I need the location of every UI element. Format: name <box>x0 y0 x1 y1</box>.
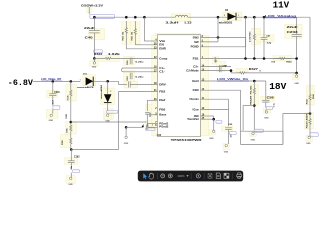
svg-text:-6.8V: -6.8V <box>8 78 34 88</box>
svg-text:R311 10k: R311 10k <box>122 31 124 40</box>
net connector pill 3.3V <box>90 15 115 19</box>
node bus-R321 <box>134 16 137 19</box>
node r328 <box>253 104 256 107</box>
node comp <box>93 57 96 60</box>
wire ENR <box>126 40 157 49</box>
wire EN <box>135 42 157 45</box>
resistor R327 <box>236 68 261 74</box>
ground C201 <box>49 109 54 122</box>
resistor R331 953K <box>306 90 314 114</box>
svg-text:R330 442K: R330 442K <box>305 113 308 129</box>
svg-text:2: 2 <box>152 124 153 126</box>
svg-text:GND: GND <box>224 152 229 154</box>
resistor R330 442K <box>305 113 311 136</box>
wire vcom block bottom <box>241 144 283 146</box>
svg-text:3.3uH: 3.3uH <box>166 21 179 24</box>
svg-text:56.2k: 56.2k <box>68 95 70 101</box>
svg-text:DRV: DRV <box>159 82 166 86</box>
svg-text:mmsz4678: mmsz4678 <box>77 86 95 89</box>
svg-text:22uF: 22uF <box>84 26 95 30</box>
svg-text:R327: R327 <box>249 68 259 71</box>
net label LCD_VAnalog <box>265 14 297 18</box>
svg-text:953K: 953K <box>313 94 315 99</box>
node bus-SW <box>217 16 220 19</box>
node bus-Vin <box>143 16 146 19</box>
ground R330 <box>306 136 311 145</box>
node bottom-tap <box>70 148 73 151</box>
wire FB2 loop <box>119 92 158 150</box>
svg-text:11V: 11V <box>273 0 290 10</box>
svg-text:2: 2 <box>224 15 225 17</box>
svg-text:EN: EN <box>159 43 164 47</box>
wire d11 cathode <box>95 80 118 82</box>
wire 11v right corner <box>309 17 311 90</box>
ground C59 <box>224 144 229 153</box>
svg-text:18V: 18V <box>269 81 286 92</box>
ground Ref <box>124 136 129 145</box>
svg-text:mmsz4684: mmsz4684 <box>100 84 103 99</box>
node divider-tap <box>70 121 73 124</box>
wire C58 branch <box>265 81 267 100</box>
svg-text:TPS65100PWR: TPS65100PWR <box>171 138 202 142</box>
ground 11V divider <box>294 73 299 85</box>
svg-text:C2+: C2+ <box>193 65 199 69</box>
node bus-R311 <box>125 16 128 19</box>
link pill C59 <box>229 132 236 135</box>
diode D11 mmsz4678 <box>77 73 95 89</box>
wire top bus <box>93 16 310 18</box>
resistor R322 4.02k <box>94 52 158 60</box>
toolbar <box>138 171 243 182</box>
wire bottom loop <box>71 149 118 151</box>
svg-text:4.02k: 4.02k <box>108 52 121 56</box>
wire PGND <box>201 37 246 46</box>
svg-text:C1-: C1- <box>159 70 165 74</box>
svg-text:Vin: Vin <box>159 39 166 43</box>
IC U14 TPS65100 body <box>158 35 201 137</box>
svg-text:L13: L13 <box>185 21 193 24</box>
text U14 <box>157 134 162 137</box>
wire pgnd row <box>126 127 142 136</box>
ground C40 <box>92 58 97 68</box>
resistor R326 <box>62 133 72 150</box>
svg-text:GSOW+3.3V: GSOW+3.3V <box>81 3 103 7</box>
svg-text:GND: GND <box>294 83 299 85</box>
node sw2 <box>217 36 220 39</box>
link pill D12 <box>106 111 117 114</box>
svg-text:PGnd2: PGnd2 <box>159 124 169 128</box>
svg-text:R329 75.5k: R329 75.5k <box>251 84 253 104</box>
svg-text:2: 2 <box>110 91 111 93</box>
resistor jumper pgnd <box>142 124 158 129</box>
svg-text:C2-/Mode: C2-/Mode <box>186 69 199 73</box>
wire Vin <box>144 17 157 41</box>
svg-text:GND: GND <box>251 140 256 142</box>
svg-text:Comp: Comp <box>159 56 167 60</box>
svg-text:C203: C203 <box>287 30 299 34</box>
wire fb2 tap <box>71 121 147 123</box>
svg-text:VComin: VComin <box>189 97 199 101</box>
node divider mid <box>309 112 312 115</box>
wire divider mid <box>283 113 310 115</box>
net GSOW+3.3V label <box>81 3 103 14</box>
diode D4 mbr0520l1 <box>219 9 239 25</box>
node c201 <box>52 80 55 83</box>
wire C2- to R327 <box>231 71 236 73</box>
ground R328 <box>251 132 256 141</box>
node bus-11v-2 <box>253 16 256 19</box>
resistor R321 10k <box>132 21 137 42</box>
node r327-11v <box>295 72 298 75</box>
wire VComin <box>201 99 229 109</box>
svg-text:C58: C58 <box>267 97 275 100</box>
node pgnd <box>142 125 144 127</box>
svg-text:1: 1 <box>238 15 239 17</box>
link pill C58 <box>266 107 272 110</box>
wire FB3 <box>201 90 241 144</box>
link pill R322 <box>94 50 103 53</box>
resistor R324 51k <box>271 57 292 63</box>
capacitor C59 <box>225 124 233 144</box>
svg-text:FB2: FB2 <box>159 89 166 93</box>
svg-text:FB3: FB3 <box>193 88 200 92</box>
svg-text:C250: C250 <box>127 60 129 65</box>
svg-text:200%: 200% <box>178 174 185 178</box>
svg-text:LCD_VGate_Off: LCD_VGate_Off <box>41 78 61 81</box>
wire vcom block top <box>241 131 283 144</box>
ground C192 <box>68 173 73 187</box>
link pill thermpad <box>216 120 222 123</box>
wire SW2-bus <box>217 17 219 42</box>
svg-text:C1+: C1+ <box>159 66 165 70</box>
text TPS65100PWR <box>171 138 202 142</box>
resistor 100k <box>67 123 72 133</box>
wire SW2 <box>201 36 246 38</box>
inductor L13 3.3uH <box>166 15 193 24</box>
svg-text:R331: R331 <box>306 98 308 104</box>
svg-text:mbr0520l1: mbr0520l1 <box>219 23 233 25</box>
svg-text:SW2: SW2 <box>193 35 200 39</box>
wire DRV <box>119 81 158 87</box>
ground C58 <box>264 110 269 120</box>
wire ThermPad pin <box>201 118 214 120</box>
link pill R328gnd <box>254 129 263 132</box>
net label LCD_VGate_Off <box>41 78 62 81</box>
svg-text:GND: GND <box>92 67 97 69</box>
svg-text:6.8p: 6.8p <box>267 42 272 44</box>
wire r328 left-down <box>243 106 254 131</box>
svg-text:PGND: PGND <box>191 45 199 49</box>
svg-text:R321 10k: R321 10k <box>132 31 134 41</box>
svg-text:C192: C192 <box>74 157 80 159</box>
svg-text:R324: R324 <box>286 61 292 64</box>
capacitor C1 flying <box>122 58 158 72</box>
wire SW <box>201 41 219 43</box>
text 11V <box>273 0 290 10</box>
svg-text:C40: C40 <box>85 36 94 40</box>
svg-text:GND: GND <box>306 143 311 145</box>
text -6.8V <box>8 78 34 88</box>
svg-text:GND: GND <box>209 138 214 140</box>
resistor R328 10k0 <box>251 81 256 129</box>
wire FB1 feedback <box>201 58 297 60</box>
wire vcom block right <box>282 114 284 145</box>
resistor R343 4.62k <box>249 17 256 58</box>
svg-text:LCD_VWhite_On: LCD_VWhite_On <box>217 77 249 81</box>
svg-text:FB1: FB1 <box>193 56 200 60</box>
svg-text:C251: C251 <box>127 76 129 81</box>
IC left pin labels <box>154 39 169 129</box>
capacitor C41 6.8p <box>261 17 272 58</box>
text 18V <box>269 81 286 92</box>
svg-text:GND: GND <box>124 143 129 145</box>
capacitor C2 lower 0.22u <box>127 73 145 81</box>
node bus-11v-3 <box>263 16 266 19</box>
capacitor C201 <box>49 81 60 105</box>
capacitor C192 <box>68 150 80 170</box>
svg-text:Ref: Ref <box>159 98 165 102</box>
svg-text:DNP: DNP <box>222 65 227 67</box>
node ref-gnd <box>125 126 128 129</box>
svg-text:0.22u: 0.22u <box>135 77 144 79</box>
wire col x245.5 <box>245 17 247 58</box>
svg-text:GND: GND <box>264 118 269 120</box>
capacitor C58 <box>262 97 275 108</box>
resistor R325 56.2k <box>66 81 72 122</box>
wire Out3 <box>201 80 266 82</box>
wire vgateoff <box>33 80 80 82</box>
svg-text:0.22u: 0.22u <box>135 62 144 64</box>
node bus-11v-1 <box>244 16 247 19</box>
resistor stub FB1 <box>214 57 217 63</box>
svg-text:U14: U14 <box>157 134 162 137</box>
svg-text:22uF: 22uF <box>287 25 298 29</box>
capacitor base <box>149 113 150 117</box>
svg-text:Out3: Out3 <box>192 79 199 83</box>
svg-text:4.62k R343: 4.62k R343 <box>249 31 252 42</box>
capacitor C40 22uF <box>84 17 100 58</box>
resistor R311 10k <box>122 21 127 41</box>
svg-text:GND: GND <box>68 184 73 186</box>
wire Ref <box>147 100 157 111</box>
node c2minus <box>230 69 233 72</box>
capacitor ref series <box>145 113 149 127</box>
wire VCom <box>201 110 229 127</box>
svg-text:1: 1 <box>80 80 81 82</box>
svg-text:R322: R322 <box>94 52 103 56</box>
wire R327 to divider <box>249 72 297 74</box>
net label LCD_VGate_On <box>217 77 249 81</box>
node fb1 junctions <box>244 57 265 60</box>
node out3 <box>253 80 256 83</box>
svg-text:VCom: VCom <box>192 107 199 111</box>
wire pgnd1 <box>148 123 158 127</box>
svg-text:LCD_VAnalog: LCD_VAnalog <box>265 14 297 18</box>
svg-text:ENR: ENR <box>159 47 166 51</box>
svg-text:Base: Base <box>159 113 167 117</box>
svg-text:GND: GND <box>49 120 54 122</box>
diode D12 mmsz4684 <box>100 81 111 110</box>
svg-text:SW: SW <box>194 40 199 44</box>
link pill C192 <box>73 170 80 173</box>
IC right pin labels <box>186 35 205 121</box>
link pill C201 <box>53 106 60 110</box>
highlight boxes <box>46 8 314 184</box>
ground ThermPad <box>209 119 215 140</box>
node r325 <box>70 80 73 83</box>
node d12 <box>106 80 109 83</box>
svg-text:FB6: FB6 <box>159 107 166 111</box>
capacitor DNP C2 <box>201 65 232 72</box>
svg-text:ThermPad: ThermPad <box>187 117 199 121</box>
node bus-C40 <box>93 16 96 19</box>
wire base <box>150 114 158 116</box>
link pill pgnd <box>146 128 155 131</box>
node fb1-right <box>295 57 298 60</box>
link pill R330 <box>310 133 318 137</box>
wire GND pin <box>201 116 214 119</box>
capacitor C203 22uF <box>287 17 302 73</box>
node thermpad <box>212 118 215 121</box>
ground D12 <box>105 114 110 122</box>
